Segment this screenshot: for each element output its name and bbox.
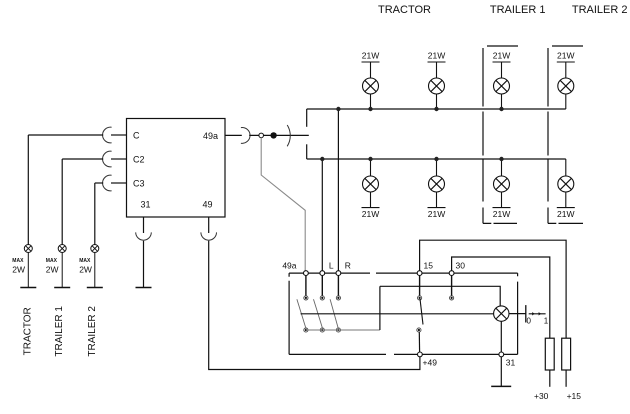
svg-text:C: C: [133, 131, 140, 141]
wire: switch lamp to actuator: [509, 313, 526, 315]
wire: bottom bus (right turn-signal feed): [307, 158, 566, 160]
pilot lamp H3 trailer2 (MAX 2W): [91, 245, 99, 288]
switch pilot lamp H4: [494, 306, 509, 321]
contact upper 49a: [304, 296, 308, 300]
wire: contact +49 down to terminal: [418, 332, 420, 352]
connector socket at 49a output: [241, 127, 250, 143]
node: junction E2 on top bus: [434, 107, 438, 111]
wire: common to switch lamp: [380, 286, 500, 306]
wire: terminal 30 up and over to fuse F1: [452, 257, 550, 338]
lamp E7 21W trailer1 bottom: [493, 159, 511, 208]
hazard switch S1 outline: [289, 273, 517, 354]
svg-text:R: R: [345, 261, 351, 271]
switch blade pole R: [330, 299, 338, 329]
terminal 30 (switch): [449, 271, 454, 276]
connector socket at C2: [103, 151, 112, 167]
connector socket at 31: [136, 232, 152, 240]
svg-text:31: 31: [141, 200, 151, 210]
connector (inline) on 49a feed: [287, 125, 290, 146]
wire: C branch down to tractor pilot lamp: [27, 135, 29, 245]
pilot lamp H1 tractor (MAX 2W): [24, 245, 32, 288]
pilot lamp H2 trailer1 (MAX 2W): [58, 245, 66, 288]
ground (H2): [54, 287, 70, 289]
node: junction R on top bus: [336, 107, 340, 111]
svg-text:C3: C3: [133, 179, 145, 189]
wire: mechanical coupling bar to knob: [301, 313, 494, 315]
lamp E5 21W tractor bottom: [362, 159, 380, 208]
node: junction E3 on top bus: [499, 107, 503, 111]
node: junction E6 on bottom bus: [434, 157, 438, 161]
lamp E3 21W trailer1 top: [493, 62, 511, 109]
contact upper L: [320, 296, 324, 300]
svg-text:21W: 21W: [557, 51, 574, 61]
node: junction L on bottom bus: [320, 157, 324, 161]
terminal +49 (switch): [418, 352, 423, 357]
contact lower L: [320, 328, 324, 332]
svg-text:MAX: MAX: [12, 258, 24, 264]
trailer 1 boundary box: [483, 46, 518, 223]
svg-text:21W: 21W: [557, 209, 574, 219]
svg-text:2W: 2W: [79, 265, 92, 275]
svg-text:21W: 21W: [493, 51, 510, 61]
terminal L (switch): [320, 271, 325, 276]
svg-text:TRACTOR: TRACTOR: [22, 307, 33, 355]
wire: 49a feed to changeover contact: [249, 134, 309, 136]
wire: terminal 15 up and over to fuse F2: [420, 240, 566, 338]
svg-text:2W: 2W: [46, 265, 59, 275]
connector socket at 49: [201, 232, 217, 240]
svg-text:31: 31: [506, 358, 516, 368]
wire: L terminal up to bottom bus: [321, 159, 323, 271]
wire: top bus (left turn-signal feed): [307, 108, 566, 110]
lamp E8 21W trailer2 bottom: [557, 159, 575, 208]
actuator travel arrow 0 to 1: [529, 312, 546, 315]
svg-text:+49: +49: [423, 358, 438, 368]
switch blade pole 15: [420, 299, 423, 325]
svg-text:C2: C2: [133, 155, 145, 165]
lamp E2 21W tractor top: [428, 62, 446, 109]
wire: pin 49 down to connector: [208, 217, 210, 233]
wire: 31 to ground: [143, 241, 145, 288]
svg-text:49a: 49a: [203, 131, 218, 141]
svg-text:21W: 21W: [362, 51, 379, 61]
contact lower 49a: [304, 328, 308, 332]
lamp E4 21W trailer2 top: [557, 62, 575, 109]
wire: terminal 30 to contact: [451, 276, 453, 296]
node: junction E5 on bottom bus: [368, 157, 372, 161]
lamp E6 21W tractor bottom: [428, 159, 446, 208]
wire: fuse F1 lower lead: [549, 370, 551, 387]
wire: R terminal up to top bus: [337, 109, 339, 271]
wire: C3 branch down to trailer2 pilot lamp: [94, 183, 96, 245]
wire: C branch horizontal: [28, 134, 103, 136]
wire: switch lamp to terminal 31: [500, 321, 502, 352]
connector socket at C: [103, 127, 112, 143]
connector socket at C3: [103, 175, 112, 191]
svg-text:+15: +15: [567, 391, 582, 401]
terminal R (switch): [336, 271, 341, 276]
contact upper 15: [418, 296, 422, 300]
wire: terminal 31 to ground: [500, 357, 502, 387]
fuse F1 (+30): [545, 338, 554, 370]
contact upper 30: [450, 296, 454, 300]
ground (switch 31): [491, 385, 511, 387]
wire: terminal 15 to contact: [419, 276, 421, 296]
changeover contact stub upper at bus start: [306, 109, 308, 127]
contact lower +49: [417, 328, 421, 332]
terminal 15 (switch): [417, 271, 422, 276]
flasher unit U1 body: [127, 119, 226, 218]
svg-text:MAX: MAX: [46, 258, 58, 264]
svg-text:21W: 21W: [362, 209, 379, 219]
wire: pin C to connector: [111, 134, 127, 136]
svg-text:TRACTOR: TRACTOR: [378, 4, 431, 16]
wire: terminal 49a to contact: [305, 276, 307, 296]
svg-text:MAX: MAX: [79, 258, 91, 264]
switch blade pole L: [314, 299, 323, 329]
wire: pin C3 to connector: [111, 182, 127, 184]
wire: fuse F2 lower lead: [565, 370, 567, 387]
wire: C2 branch down to trailer1 pilot lamp: [61, 159, 63, 245]
contact lower R: [336, 328, 340, 332]
svg-text:49: 49: [202, 200, 212, 210]
svg-text:L: L: [329, 261, 334, 271]
wire: pin 49a output: [225, 134, 242, 136]
wire: 49a tap down to hazard switch terminal (grey): [261, 138, 305, 271]
trailer 2 boundary box: [548, 46, 583, 223]
terminal 49a (switch): [304, 271, 309, 276]
node: junction E7 on bottom bus: [499, 157, 503, 161]
svg-text:21W: 21W: [428, 209, 445, 219]
node: junction E1 on top bus: [368, 107, 372, 111]
wire: 49 down and across to +49 terminal: [209, 241, 420, 370]
svg-text:2W: 2W: [12, 265, 25, 275]
ground (H1): [20, 287, 36, 289]
svg-text:15: 15: [424, 261, 434, 271]
switch blade pole 49a: [297, 299, 306, 329]
changeover contact stub lower at bus start: [306, 144, 308, 159]
svg-text:+30: +30: [534, 391, 549, 401]
wire: pin C2 to connector: [111, 158, 127, 160]
svg-text:21W: 21W: [493, 209, 510, 219]
wire: C2 branch horizontal: [62, 158, 103, 160]
svg-text:30: 30: [456, 261, 466, 271]
svg-text:21W: 21W: [428, 51, 445, 61]
actuator bar: [525, 305, 527, 322]
svg-text:1: 1: [544, 317, 549, 326]
wire: riser from lower contacts: [379, 286, 381, 330]
terminal 31 (switch): [499, 352, 504, 357]
wire: lower contacts common (grey): [306, 329, 380, 331]
ground (flasher 31): [136, 287, 152, 289]
lamp E1 21W tractor top: [362, 62, 380, 109]
svg-text:TRAILER 1: TRAILER 1: [490, 4, 546, 16]
svg-text:TRAILER 1: TRAILER 1: [54, 306, 65, 357]
wire: pin 31 down to connector: [143, 217, 145, 233]
wire: terminal L to contact: [321, 276, 323, 296]
fuse F2 (+15): [562, 338, 571, 370]
node: tap circle on 49a feed: [259, 133, 264, 138]
wire: terminal R to contact: [337, 276, 339, 296]
svg-text:TRAILER 2: TRAILER 2: [87, 306, 98, 357]
wire: C3 branch horizontal: [95, 182, 103, 184]
svg-text:49a: 49a: [282, 261, 296, 271]
svg-text:TRAILER 2: TRAILER 2: [572, 4, 628, 16]
svg-text:0: 0: [526, 317, 531, 326]
node: junction dot on 49a feed: [270, 132, 276, 138]
contact upper R: [336, 296, 340, 300]
ground (H3): [87, 287, 103, 289]
